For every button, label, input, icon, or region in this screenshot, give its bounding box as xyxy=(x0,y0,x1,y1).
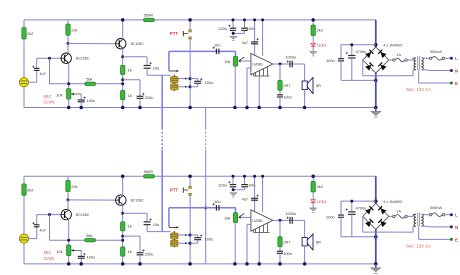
capacitor C 220u rail filter station 2 xyxy=(232,176,234,184)
svg-text:LED1: LED1 xyxy=(317,200,326,204)
switch PTT contacts station 1 xyxy=(189,20,191,30)
svg-text:500mA: 500mA xyxy=(430,50,442,54)
svg-text:1k: 1k xyxy=(128,67,132,72)
wire LM380 inverting input grounded station 2 xyxy=(247,223,251,225)
capacitor C 100n zobel station 1 xyxy=(279,90,281,94)
svg-text:10k: 10k xyxy=(56,92,62,97)
capacitor C 220u emitter bypass station 2 xyxy=(123,235,140,237)
svg-text:LED1: LED1 xyxy=(317,44,326,48)
svg-text:1000u: 1000u xyxy=(285,54,296,59)
capacitor C 10u audio series station 2 xyxy=(215,205,217,211)
microphone MIC station 1 xyxy=(19,78,28,87)
wire PSU DC- line station 1 xyxy=(341,79,376,81)
wire fuse to transformer station 1 xyxy=(407,59,413,61)
svg-text:100u: 100u xyxy=(205,237,214,242)
svg-text:LM380: LM380 xyxy=(252,63,262,67)
wire cap to talk-listen switch station 2 xyxy=(147,231,171,233)
resistor R 1k emitter lower station 1 xyxy=(121,90,125,99)
svg-text:10u: 10u xyxy=(214,43,221,48)
wire fuse to transformer station 2 xyxy=(407,215,413,217)
node V+ rail station 2 xyxy=(24,175,376,177)
node PSU DC- junction station 1 xyxy=(374,79,378,83)
svg-text:E: E xyxy=(455,81,458,86)
wire primary top to mains fuse station 1 xyxy=(421,57,424,59)
svg-text:E: E xyxy=(455,237,458,242)
capacitor C 100u switch bypass station 2 xyxy=(190,234,198,236)
resistor R 56k feedback station 2 xyxy=(85,239,96,242)
svg-text:BC108C: BC108C xyxy=(76,213,90,217)
wire switch contact outputs station 1 xyxy=(178,78,190,80)
wire primary top to mains fuse station 2 xyxy=(421,213,424,215)
svg-text:220u: 220u xyxy=(218,26,227,31)
svg-text:MIC: MIC xyxy=(44,94,52,99)
svg-text:10u: 10u xyxy=(214,199,221,204)
capacitor C 100n PSU station 2 xyxy=(340,201,342,215)
wire bias/feedback line station 1 xyxy=(50,83,123,85)
resistor R 560R supply decoupling station 1 xyxy=(144,18,155,21)
wire PTT down to switch pole station 1 xyxy=(189,39,191,107)
svg-text:L: L xyxy=(455,213,458,218)
wire cap to talk-listen switch station 1 xyxy=(147,74,171,76)
node line B to station2 input crossing xyxy=(204,207,207,210)
svg-text:4u7: 4u7 xyxy=(39,227,46,232)
svg-text:100u: 100u xyxy=(205,80,214,85)
transistor Q2 BC108C station 1 xyxy=(116,39,126,49)
switch lever arrow station 1 xyxy=(169,70,177,72)
wire switch contact outputs station 2 xyxy=(178,234,190,236)
resistor R 22k collector load station 1 xyxy=(67,20,69,44)
LED D LED1 power indicator station 1 xyxy=(312,36,314,43)
fuse F 1A secondary station 2 xyxy=(389,215,393,217)
node PSU DC+ junction station 2 xyxy=(374,199,378,203)
svg-text:GAIN: GAIN xyxy=(44,256,55,261)
svg-text:PTT: PTT xyxy=(170,31,179,36)
resistor R 2k2 LED feed station 1 xyxy=(312,20,314,25)
capacitor C 100n rail filter station 1 xyxy=(244,20,246,28)
wire bright audio feed station 2 xyxy=(169,207,236,209)
svg-text:MIC: MIC xyxy=(44,250,52,255)
wire collector to Q2 base station 1 xyxy=(68,43,116,45)
node Q2 emitter junction station 1 xyxy=(121,55,124,58)
svg-text:100n: 100n xyxy=(326,214,335,219)
capacitor C 100n PSU station 1 xyxy=(340,45,342,59)
node ground rail junction dots station 1 xyxy=(67,106,71,110)
svg-text:BC108C: BC108C xyxy=(76,57,90,61)
fuse F 500mA mains station 2 xyxy=(429,214,431,216)
wire PSU DC+ vertical station 2 xyxy=(375,176,377,203)
svg-text:22k: 22k xyxy=(71,184,77,189)
terminal E earth station 2 xyxy=(418,226,420,239)
svg-text:2R7: 2R7 xyxy=(283,239,290,244)
microphone MIC station 2 xyxy=(19,234,28,243)
svg-text:2k2: 2k2 xyxy=(317,27,323,32)
capacitor C 4700u PSU filter station 1 xyxy=(351,45,353,56)
ground rail filter station 2 xyxy=(233,189,245,191)
svg-text:220u: 220u xyxy=(218,182,227,187)
svg-text:N: N xyxy=(455,68,458,73)
svg-text:22k: 22k xyxy=(71,28,77,33)
svg-text:4u7: 4u7 xyxy=(242,196,249,201)
resistor R 22k collector load station 2 xyxy=(67,176,69,200)
capacitor C 1000u output coupling station 1 xyxy=(289,61,291,68)
node emitter divider taps station 2 xyxy=(121,235,124,238)
wire PTT down to switch pole station 2 xyxy=(189,196,191,264)
svg-text:15u: 15u xyxy=(153,65,160,70)
wire left supply vertical station 2 xyxy=(23,176,25,264)
wire interconnect audio bus A xyxy=(161,75,163,128)
svg-text:500mA: 500mA xyxy=(430,206,442,210)
wire DC+ to filter caps station 1 xyxy=(341,44,376,46)
svg-text:10k: 10k xyxy=(56,249,62,254)
wire bias/feedback line station 2 xyxy=(50,239,123,241)
terminal L live station 2 xyxy=(445,214,450,216)
capacitor C 100u emitter bypass station 1 xyxy=(80,94,82,100)
svg-text:4 x 1N400X: 4 x 1N400X xyxy=(383,200,403,204)
svg-text:1A: 1A xyxy=(396,209,401,213)
resistor R 1k emitter upper station 2 xyxy=(121,222,125,231)
capacitor C 4u7 bootstrap station 1 xyxy=(251,41,258,43)
wire LM380 supply pins station 2 xyxy=(254,176,256,212)
svg-text:1k: 1k xyxy=(128,249,132,254)
svg-text:560R: 560R xyxy=(144,169,153,174)
node Q1 collector junction station 1 xyxy=(67,42,70,45)
resistor R 560R supply decoupling station 2 xyxy=(144,175,155,178)
wire LM380 ground pin down station 2 xyxy=(258,232,260,264)
transistor Q1 BC108C station 1 xyxy=(61,53,71,63)
capacitor C 100n zobel station 2 xyxy=(279,247,281,251)
svg-text:4700u: 4700u xyxy=(356,206,367,211)
wire volume pot bottom to ground station 1 xyxy=(234,66,236,107)
wire Q1 base line station 2 xyxy=(37,214,61,216)
svg-text:Sec: 12V 1A: Sec: 12V 1A xyxy=(406,87,431,92)
resistor R 2R7 zobel station 1 xyxy=(279,64,281,80)
wire LM380 output station 1 xyxy=(273,63,305,65)
svg-text:L: L xyxy=(455,56,458,61)
wire left supply vertical station 1 xyxy=(23,20,25,108)
terminal N neutral station 2 xyxy=(421,225,428,227)
ground LED branch station 2 xyxy=(312,203,314,208)
wire mic to coupling cap station 2 xyxy=(29,238,37,240)
wire LM380 inverting input grounded station 1 xyxy=(247,67,251,69)
diode bridge 4 x 1N400X station 1 xyxy=(363,47,389,73)
svg-text:100n: 100n xyxy=(283,95,292,100)
svg-text:2R7: 2R7 xyxy=(283,83,290,88)
switch PTT contacts station 2 xyxy=(189,176,191,186)
wire PSU DC- to ground rail station 1 xyxy=(375,73,377,108)
node Q1 base junction station 2 xyxy=(48,213,51,216)
svg-text:LM380: LM380 xyxy=(252,219,262,223)
ground rail filter station 1 xyxy=(233,32,245,34)
transistor Q2 BC108C station 2 xyxy=(116,195,126,205)
svg-text:BC108C: BC108C xyxy=(131,198,145,202)
wire pot bottom to ground station 1 xyxy=(68,99,70,107)
wire Q2 emitter chain station 2 xyxy=(122,204,124,264)
op-amp U1 LM380 station 2 xyxy=(251,210,273,231)
transformer T1 station 1 xyxy=(414,58,416,61)
node ground rail junction dots station 2 xyxy=(67,262,71,266)
resistor R 1k emitter upper station 1 xyxy=(121,65,125,74)
wire bright audio feed station 1 xyxy=(169,50,236,52)
svg-text:220u: 220u xyxy=(145,251,154,256)
svg-text:2k2: 2k2 xyxy=(317,184,323,189)
node ground rail station 2 xyxy=(24,263,376,265)
wire Q2 collector to rail station 1 xyxy=(122,20,124,40)
resistor R 2R7 zobel station 2 xyxy=(279,220,281,236)
svg-text:56k: 56k xyxy=(86,233,92,238)
ground LED branch station 1 xyxy=(312,46,314,51)
potentiometer VR 10k volume station 1 xyxy=(235,51,237,56)
capacitor C 220u emitter bypass station 1 xyxy=(123,79,140,81)
resistor R 2k2 mic feed station 2 xyxy=(22,184,26,196)
node Q2 emitter junction station 2 xyxy=(121,212,124,215)
potentiometer VR 10k volume station 2 xyxy=(235,208,237,213)
svg-text:PTT: PTT xyxy=(170,188,179,193)
ground PSU chassis station 2 xyxy=(375,264,377,268)
node Q1 collector junction station 2 xyxy=(67,198,70,201)
wire collector to Q2 base station 2 xyxy=(68,199,116,201)
wire Q1 base line station 1 xyxy=(37,57,61,59)
svg-text:1A: 1A xyxy=(396,53,401,57)
diode bridge 4 x 1N400X station 2 xyxy=(363,203,389,229)
capacitor C 100u emitter bypass station 2 xyxy=(80,250,82,256)
svg-text:N: N xyxy=(455,225,458,230)
svg-text:1k: 1k xyxy=(128,93,132,98)
node PSU DC- junction station 2 xyxy=(374,235,378,239)
ground pin comb LM380 station 1 xyxy=(254,75,270,77)
node PSU DC+ junction station 1 xyxy=(374,43,378,47)
node ground rail station 1 xyxy=(24,107,376,109)
ground pin comb LM380 station 2 xyxy=(254,231,270,233)
terminal N neutral station 1 xyxy=(421,69,428,71)
capacitor C 4u7 mic coupling station 2 xyxy=(34,224,40,226)
svg-text:1k: 1k xyxy=(128,224,132,229)
wire Q1 emitter station 2 xyxy=(68,219,70,245)
svg-text:GAIN: GAIN xyxy=(44,99,55,104)
capacitor C 100u switch bypass station 1 xyxy=(190,78,198,80)
svg-text:4700u: 4700u xyxy=(356,49,367,54)
wire base bias drop station 1 xyxy=(49,58,51,84)
capacitor C 1000u output coupling station 2 xyxy=(289,217,291,224)
svg-text:1000u: 1000u xyxy=(285,211,296,216)
svg-text:15u: 15u xyxy=(153,222,160,227)
wire interconnect common line B xyxy=(205,108,207,129)
wire LM380 output station 2 xyxy=(273,219,305,221)
op-amp U1 LM380 station 1 xyxy=(251,53,273,74)
fuse F 500mA mains station 1 xyxy=(429,57,431,59)
ground PSU chassis station 1 xyxy=(375,108,377,112)
svg-text:Sec: 12V 1A: Sec: 12V 1A xyxy=(406,243,431,248)
wire pot bottom to ground station 2 xyxy=(68,256,70,264)
svg-text:100n: 100n xyxy=(283,251,292,256)
node PSU ground junction station 2 xyxy=(374,262,378,266)
potentiometer VR 10k MIC GAIN station 2 xyxy=(67,245,71,256)
potentiometer VR 10k MIC GAIN station 1 xyxy=(67,89,71,100)
svg-text:2k2: 2k2 xyxy=(27,31,33,36)
capacitor C 15u audio out coupling station 2 xyxy=(123,212,147,214)
wire Q2 collector to rail station 2 xyxy=(122,176,124,196)
speaker LS 8R station 2 xyxy=(304,220,306,237)
svg-text:2k2: 2k2 xyxy=(27,187,33,192)
terminal E earth station 1 xyxy=(418,70,420,83)
capacitor C 15u audio out coupling station 1 xyxy=(123,56,147,58)
svg-text:8R: 8R xyxy=(316,83,321,88)
transistor Q1 BC108C station 2 xyxy=(61,209,71,219)
svg-text:100u: 100u xyxy=(87,98,96,103)
switch S1 talk-listen gold contacts station 1 xyxy=(173,75,175,91)
node emitter divider taps station 1 xyxy=(121,78,124,81)
wire LM380 ground pin down station 1 xyxy=(258,76,260,108)
resistor R 56k feedback station 1 xyxy=(85,82,96,85)
node PSU ground junction station 1 xyxy=(374,106,378,110)
node V+ rail station 1 xyxy=(24,19,376,21)
svg-text:4 x 1N400X: 4 x 1N400X xyxy=(383,44,403,48)
node Q1 base junction station 1 xyxy=(48,57,51,60)
capacitor C 220u rail filter station 1 xyxy=(232,20,234,28)
resistor R 2k2 mic feed station 1 xyxy=(22,28,26,40)
wire bridge AC lower path station 2 xyxy=(362,216,364,232)
svg-text:10k: 10k xyxy=(224,215,230,220)
svg-text:4u7: 4u7 xyxy=(39,71,46,76)
wire volume pot bottom to ground station 2 xyxy=(234,223,236,264)
resistor R 2k2 LED feed station 2 xyxy=(312,176,314,181)
capacitor C 100n rail filter station 2 xyxy=(244,176,246,184)
wire PSU DC+ vertical station 1 xyxy=(375,20,377,47)
resistor R 1k emitter lower station 2 xyxy=(121,247,125,256)
svg-text:8R: 8R xyxy=(316,239,321,244)
speaker LS 8R station 1 xyxy=(304,64,306,81)
svg-text:220u: 220u xyxy=(145,95,154,100)
svg-text:BC108C: BC108C xyxy=(131,42,145,46)
fuse F 1A secondary station 1 xyxy=(389,59,393,61)
capacitor C 4u7 mic coupling station 1 xyxy=(34,67,40,69)
svg-text:4u7: 4u7 xyxy=(242,40,249,45)
svg-text:100u: 100u xyxy=(87,255,96,260)
svg-text:56k: 56k xyxy=(86,77,92,82)
transformer T1 station 2 xyxy=(414,214,416,217)
switch lever arrow station 2 xyxy=(169,226,177,228)
svg-text:100n: 100n xyxy=(326,58,335,63)
capacitor C 4700u PSU filter station 2 xyxy=(351,201,353,212)
wire PSU DC- to ground rail station 2 xyxy=(375,229,377,264)
wire mic to coupling cap station 1 xyxy=(29,81,37,83)
wire PSU DC- line station 2 xyxy=(341,236,376,238)
svg-text:10k: 10k xyxy=(224,59,230,64)
wire bridge AC lower path station 1 xyxy=(362,60,364,76)
capacitor C 10u audio series station 1 xyxy=(215,49,217,55)
switch S1 talk-listen gold contacts station 2 xyxy=(173,231,175,247)
capacitor C 4u7 bootstrap station 2 xyxy=(251,197,258,199)
wire base bias drop station 2 xyxy=(49,215,51,241)
terminal L live station 1 xyxy=(445,57,450,59)
wire DC+ to filter caps station 2 xyxy=(341,200,376,202)
wire Q2 emitter chain station 1 xyxy=(122,48,124,108)
svg-text:560R: 560R xyxy=(144,13,153,18)
wire LM380 supply pins station 1 xyxy=(254,20,256,56)
LED D LED1 power indicator station 2 xyxy=(312,192,314,199)
wire Q1 emitter station 1 xyxy=(68,62,70,88)
